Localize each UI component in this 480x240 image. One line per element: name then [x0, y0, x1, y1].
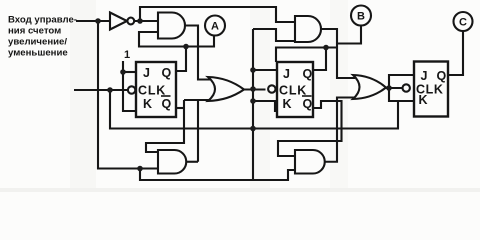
svg-text:Q: Q [303, 97, 313, 111]
svg-text:K: K [283, 97, 292, 111]
svg-text:B: B [357, 11, 365, 23]
svg-text:увеличение/: увеличение/ [8, 37, 67, 48]
svg-text:Q: Q [303, 67, 313, 81]
svg-text:Q: Q [162, 97, 172, 111]
svg-text:ния счетом: ния счетом [8, 26, 61, 37]
svg-text:J: J [421, 69, 428, 83]
svg-text:K: K [143, 97, 152, 111]
svg-text:K: K [419, 93, 428, 107]
svg-text:уменьшение: уменьшение [8, 48, 68, 59]
svg-text:1: 1 [124, 49, 130, 61]
svg-text:Q: Q [162, 66, 172, 80]
svg-text:Вход управле-: Вход управле- [8, 15, 77, 26]
svg-text:J: J [283, 67, 290, 81]
svg-text:J: J [143, 66, 150, 80]
svg-text:A: A [211, 21, 219, 33]
svg-text:C: C [459, 17, 467, 29]
svg-text:Q: Q [437, 69, 447, 83]
